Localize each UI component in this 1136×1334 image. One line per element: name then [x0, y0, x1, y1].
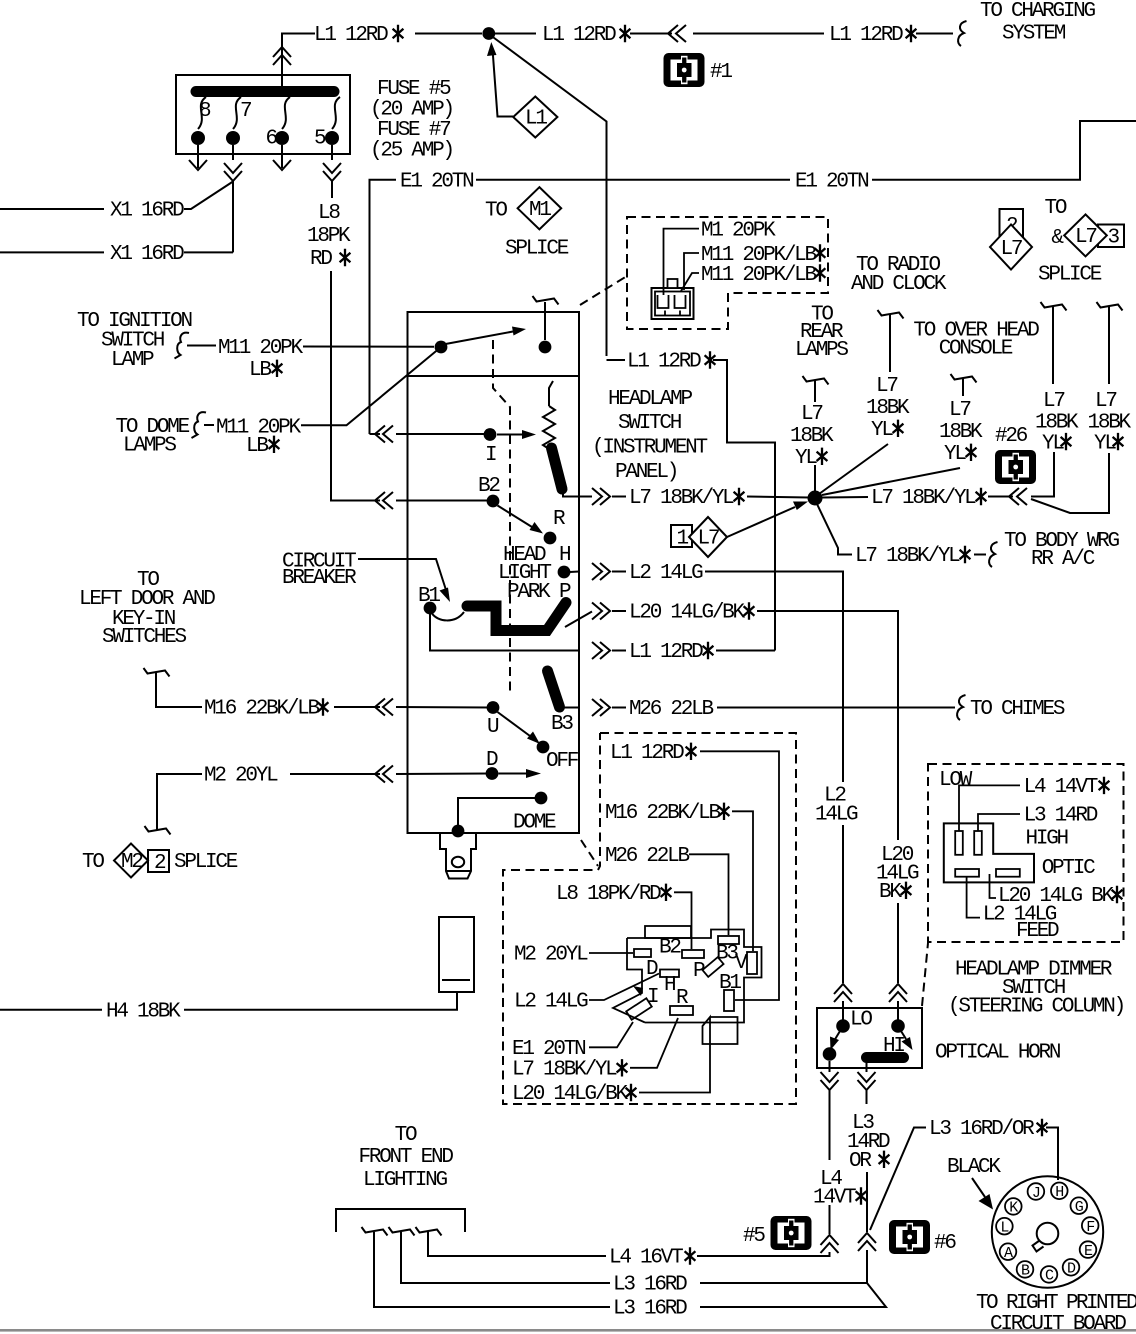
svg-text:E1 20TN: E1 20TN [795, 170, 868, 193]
pin P slot [693, 957, 724, 983]
pin H [1051, 1183, 1068, 1202]
arrow HI wiper [901, 1031, 913, 1050]
column 5 L7 [1031, 302, 1132, 513]
pin E [1080, 1241, 1097, 1260]
front end lighting connector bracket [336, 1209, 465, 1232]
svg-text:TO CHARGING: TO CHARGING [980, 0, 1096, 23]
svg-text:SPLICE: SPLICE [505, 237, 569, 260]
svg-text:BREAKER: BREAKER [282, 567, 357, 590]
dashed link optical horn to dimmer box [922, 943, 928, 1006]
svg-text:L7: L7 [1095, 390, 1116, 413]
svg-text:OPTIC: OPTIC [1042, 857, 1095, 880]
pin J [1028, 1183, 1045, 1202]
leader L8 to B2 pin [674, 892, 692, 949]
label TO LEFT DOOR AND KEY-IN SWITCHES [79, 569, 215, 649]
label L4 14VT* (column) [813, 1168, 866, 1210]
label B1 [418, 585, 440, 608]
wire B1 to L1 output row [430, 614, 579, 651]
pin F [1082, 1217, 1099, 1236]
label X1 16RD first [110, 200, 184, 223]
label M11 20PK LB* (dome) [216, 417, 301, 459]
column 3 L7 overhead console [822, 374, 983, 495]
label D [486, 749, 498, 772]
svg-text:L7: L7 [1075, 226, 1096, 249]
label E1 20TN (left) [400, 170, 473, 193]
svg-text:(STEERING COLUMN): (STEERING COLUMN) [948, 996, 1124, 1019]
inline connector on B2 row [375, 492, 393, 509]
svg-text:TO: TO [395, 1124, 417, 1147]
svg-text:LOW: LOW [939, 769, 973, 792]
svg-text:M26 22LB: M26 22LB [629, 698, 713, 721]
brace (dome leader) [192, 412, 207, 438]
fuse bus bar [196, 86, 334, 97]
dashed detail box M1/M11 connector [627, 217, 828, 329]
label SPLICE (M2) [174, 851, 238, 874]
svg-text:SWITCHES: SWITCHES [102, 626, 186, 649]
svg-text:OPTICAL HORN: OPTICAL HORN [935, 1042, 1060, 1065]
svg-text:YL: YL [795, 447, 817, 470]
node LO out [823, 1047, 837, 1061]
label TO (M2 splice) [82, 851, 104, 874]
svg-text:BLACK: BLACK [947, 1156, 1001, 1179]
fuse element pin 7 [233, 97, 241, 129]
svg-text:J: J [1032, 1185, 1040, 1202]
wire M2 row left [145, 766, 490, 835]
fuse block box [176, 75, 350, 154]
label DOME [513, 812, 556, 835]
node fuse pin 7 [226, 131, 240, 145]
wire L1 12RD feed from fuse bus to top corner [282, 34, 482, 87]
sail hook 1 [362, 1227, 388, 1236]
label B2 [478, 475, 500, 498]
leader L7 to R pin [630, 1018, 678, 1068]
svg-text:M16 22BK/LB: M16 22BK/LB [204, 698, 320, 721]
label #5 [743, 1225, 765, 1248]
svg-text:L7: L7 [801, 403, 822, 426]
node H [558, 566, 571, 579]
wire X1 16RD first [0, 182, 233, 210]
pin L [996, 1218, 1013, 1237]
splice symbol diamond L1 [513, 97, 557, 138]
pin A [1000, 1243, 1017, 1262]
svg-text:18BK: 18BK [866, 397, 910, 420]
arrow from splice diamond L1 into junction [487, 42, 513, 117]
label #26 [995, 425, 1028, 448]
arrow wiper (top section) [446, 327, 527, 345]
label L3 16RD (row3) [613, 1298, 687, 1321]
arrow BLACK to connector [972, 1178, 993, 1210]
svg-text:M2 20YL: M2 20YL [204, 765, 278, 788]
inline connector #26 wire [1009, 488, 1027, 505]
svg-text:M1 20PK: M1 20PK [701, 219, 776, 242]
svg-text:YL: YL [871, 419, 893, 442]
label H4 18BK [106, 1001, 181, 1024]
label M11 20PK/LB* (first) [701, 244, 825, 267]
svg-text:18BK: 18BK [939, 421, 983, 444]
sail hook 3 [416, 1227, 442, 1236]
arrow B2 to R [498, 506, 544, 534]
label HI [883, 1035, 904, 1058]
node L7 bus junction [808, 491, 823, 506]
label X1 16RD second [110, 243, 184, 266]
dimmer pin slot 2 [974, 831, 982, 855]
svg-text:L20 14LG/BK: L20 14LG/BK [629, 602, 746, 625]
label L7 18BK/YL* (detail) [512, 1059, 627, 1082]
svg-text:DOME: DOME [513, 812, 556, 835]
svg-text:L7: L7 [949, 399, 970, 422]
svg-text:(INSTRUMENT: (INSTRUMENT [592, 437, 708, 460]
2-pin connector symbol [652, 279, 694, 319]
dashed link switch corner to detail box [581, 840, 598, 866]
label OFF [546, 750, 579, 773]
label M26 22LB (detail) [605, 845, 689, 868]
round connector circle [992, 1176, 1103, 1287]
svg-text:YL: YL [1094, 432, 1116, 455]
splice symbol diamond L7 (2) [990, 225, 1032, 270]
svg-text:X1 16RD: X1 16RD [110, 200, 184, 223]
svg-text:YL: YL [944, 443, 966, 466]
node fuse pin 5 [325, 131, 339, 145]
svg-text:L7: L7 [698, 528, 719, 551]
svg-text:HIGH: HIGH [1026, 828, 1068, 851]
output L20 14LG/BK* [592, 602, 898, 840]
label L20 14LG/BK* (detail) [512, 1083, 636, 1106]
wire R contact to L7 output [563, 492, 579, 497]
label L20 14LG BK* (dimmer) [998, 885, 1122, 908]
label P [559, 581, 571, 604]
label TO DOME LAMPS [116, 416, 190, 457]
svg-text:CONSOLE: CONSOLE [939, 338, 1013, 361]
switch internal divider [408, 375, 580, 377]
sail hook 2 [389, 1227, 415, 1236]
svg-text:B2: B2 [659, 937, 681, 960]
svg-text:I: I [647, 986, 658, 1009]
pin D [1063, 1259, 1080, 1278]
node fuse pin 8 [191, 131, 205, 145]
pin-detail top bump [645, 926, 691, 938]
leader M26 to B3 pin [689, 854, 729, 935]
svg-text:RD: RD [310, 248, 332, 271]
label TO RIGHT PRINTED CIRCUIT BOARD [976, 1292, 1136, 1334]
leader L4 dimmer [959, 785, 1020, 831]
fuse element pin 8 [198, 97, 206, 129]
label HIGH [1026, 828, 1068, 851]
connector icon #26 [995, 450, 1036, 484]
thick park contact [467, 603, 566, 631]
battery feed sail above switch [533, 296, 559, 340]
svg-text:L7 18BK/YL: L7 18BK/YL [855, 545, 960, 568]
splice ref square 3 [1098, 225, 1124, 248]
pin R slot [670, 987, 693, 1015]
svg-text:2: 2 [154, 852, 166, 875]
wire H to L2 output [570, 571, 579, 574]
svg-text:14LG: 14LG [815, 804, 858, 827]
pin B [1017, 1261, 1034, 1280]
node R [544, 532, 557, 545]
node LO [836, 1019, 850, 1033]
svg-text:H: H [1055, 1184, 1063, 1201]
label LOW [939, 769, 973, 792]
wire HI output below box [700, 1058, 886, 1308]
arrow I to rheostat [497, 430, 536, 439]
svg-text:L4 14VT: L4 14VT [1024, 776, 1098, 799]
pin-detail bottom plug [703, 1017, 738, 1044]
pin G [1071, 1197, 1088, 1216]
pin labels 8 7 6 5 [199, 100, 326, 151]
label I [485, 444, 496, 467]
leader M11 second [681, 273, 699, 291]
svg-text:(25 AMP): (25 AMP) [370, 140, 453, 163]
splice ref square 1 [671, 525, 692, 551]
wire LO output below box [697, 1061, 839, 1256]
inline connector chevrons on charging wire [668, 25, 686, 42]
label L1 12RD* (top left) [314, 24, 403, 47]
label B3 [551, 713, 573, 736]
svg-text:L3 14RD: L3 14RD [1024, 805, 1098, 828]
leader M1 pin [664, 229, 700, 295]
thick contact R [552, 448, 563, 489]
label L8 18PK/RD* (detail) [556, 883, 671, 906]
svg-text:SYSTEM: SYSTEM [1002, 23, 1066, 46]
label L4 14VT* (dimmer) [1024, 776, 1110, 799]
svg-text:M2 20YL: M2 20YL [514, 944, 588, 967]
svg-text:TO RIGHT PRINTED: TO RIGHT PRINTED [976, 1292, 1136, 1315]
svg-text:B2: B2 [478, 475, 500, 498]
svg-text:LAMPS: LAMPS [795, 339, 848, 362]
label TO IGNITION SWITCH LAMP [77, 310, 192, 372]
leader L20 dimmer [990, 874, 997, 898]
optical horn box [817, 1008, 922, 1068]
node dome bottom [452, 825, 465, 838]
dimmer pin slot 3 [955, 869, 979, 877]
dimmer switch outline [944, 823, 1034, 882]
component (dome feed) rectangle [439, 917, 474, 992]
wire L20 column to optical horn [889, 903, 907, 1021]
label M16 22BK/LB* (detail) [605, 802, 729, 825]
node B2 [487, 495, 500, 508]
wire M11 20PK to wiper node [187, 346, 434, 347]
svg-text:RR A/C: RR A/C [1031, 548, 1095, 571]
svg-text:3: 3 [1108, 227, 1120, 250]
svg-text:PANEL): PANEL) [615, 461, 677, 484]
wire L3 16RD row 3 [374, 1232, 610, 1307]
pin V slot [735, 952, 757, 975]
svg-text:#6: #6 [934, 1232, 956, 1255]
node L1 junction [482, 27, 495, 40]
svg-text:18BK: 18BK [1088, 412, 1132, 435]
label M2 20YL (detail) [514, 944, 588, 967]
label L1 12RD* (detail) [610, 742, 696, 765]
pin K [1005, 1198, 1022, 1217]
label TO OVER HEAD CONSOLE [913, 319, 1039, 360]
off-page squiggle to charging system [958, 21, 966, 46]
wire M16 row left [144, 668, 491, 716]
label L2 14LG (column) [815, 785, 858, 827]
svg-text:L1 12RD: L1 12RD [829, 24, 903, 47]
svg-text:B3: B3 [551, 713, 573, 736]
node U [487, 701, 500, 714]
wire DOME to bottom plug [458, 798, 535, 831]
svg-text:L3 16RD: L3 16RD [613, 1274, 687, 1297]
node DOME contact [535, 792, 548, 805]
label L3 14RD OR* (column) [847, 1112, 890, 1173]
label L1 12RD* (switch feed) [627, 351, 715, 374]
wire pin6 stub with open arrow [273, 145, 291, 170]
column 4 L7 [1035, 302, 1079, 455]
leader L2 dimmer [967, 877, 980, 918]
wire pin5 with inline connector [323, 145, 341, 198]
dashed link from switch corner to detail box [580, 276, 627, 305]
label L3 16RD (row2) [613, 1274, 687, 1297]
svg-text:18PK: 18PK [307, 225, 351, 248]
pin C [1041, 1266, 1058, 1285]
fuse element pin 5 [332, 97, 340, 129]
svg-text:LO: LO [850, 1009, 872, 1032]
svg-text:LAMP: LAMP [111, 349, 154, 372]
label R [553, 508, 566, 531]
svg-text:L1 12RD: L1 12RD [542, 24, 616, 47]
arrow U to OFF [498, 712, 541, 744]
inline connector chevrons on L1 fuse riser [273, 47, 291, 65]
svg-text:M16 22BK/LB: M16 22BK/LB [605, 802, 721, 825]
svg-text:LAMPS: LAMPS [123, 435, 176, 458]
fuse element pin 6 [282, 97, 290, 129]
svg-text:L1 12RD: L1 12RD [610, 742, 684, 765]
wire M26 output from B3 [560, 695, 1065, 721]
svg-text:L20 14LG/BK: L20 14LG/BK [512, 1083, 629, 1106]
pin B3 slot [716, 936, 739, 966]
node HI top [891, 1019, 905, 1033]
label TO (M1 splice) [485, 199, 507, 222]
svg-text:OR: OR [849, 1150, 872, 1173]
node D [486, 767, 499, 780]
wire H4 18BK [0, 992, 457, 1010]
splice symbol diamond M2 [114, 844, 148, 878]
arrow LO wiper [830, 1031, 840, 1050]
svg-text:5: 5 [314, 128, 326, 151]
pin H slot [646, 958, 679, 997]
splice symbol diamond L7 (1) [689, 517, 727, 557]
label TO REAR LAMPS [795, 304, 848, 362]
svg-text:OFF: OFF [546, 750, 579, 773]
column 1 L7 to rear lamps [790, 376, 834, 491]
wire L3 16RD/OR* branch [870, 1128, 1058, 1231]
svg-text:AND CLOCK: AND CLOCK [851, 273, 947, 296]
node OFF [537, 741, 550, 754]
wire pin7 with inline connector [224, 145, 242, 252]
svg-text:X1 16RD: X1 16RD [110, 243, 184, 266]
svg-text:L2 14LG: L2 14LG [629, 562, 703, 585]
label SPLICE (M1) [505, 237, 569, 260]
switch connector pin-detail outline [613, 930, 762, 1023]
leader E1 to I pin [589, 1022, 633, 1047]
dimmer pin slot 1 [955, 831, 963, 855]
svg-text:P: P [693, 960, 705, 983]
wire L8 down to switch B2 row [331, 271, 490, 501]
dimmer pin slot 4 [996, 869, 1020, 877]
node switch feed (top right contact) [539, 341, 552, 354]
wire L4 16VT* row [428, 1232, 606, 1256]
wire junction to inline connector right [822, 452, 1054, 498]
svg-text:H: H [664, 974, 675, 997]
wire L3 16RD row 2 [401, 1232, 610, 1283]
label L20 14LG BK* (column) [876, 844, 919, 904]
rheostat resistor [543, 406, 555, 453]
brace (ignition leader) [175, 333, 190, 359]
svg-text:YL: YL [1042, 432, 1064, 455]
wire M11 20PK dome diagonal to wiper node [204, 350, 438, 426]
label HEADLAMP SWITCH (INSTRUMENT PANEL) [592, 388, 708, 484]
svg-text:L3 16RD: L3 16RD [613, 1298, 687, 1321]
wire E1 20TN main run [370, 121, 1136, 434]
label L2 14LG FEED (dimmer) [983, 904, 1059, 944]
svg-text:7: 7 [240, 100, 251, 123]
label M11 20PK/LB* (second) [701, 264, 825, 287]
svg-text:L8: L8 [318, 202, 340, 225]
svg-text:M2: M2 [121, 851, 143, 874]
label M11 20PK LB* (ignition) [218, 337, 303, 382]
thick HI contact bar [867, 1052, 904, 1063]
svg-text:L8 18PK/RD: L8 18PK/RD [556, 883, 661, 906]
node switch wiper (top left contact) [435, 341, 448, 354]
svg-text:18BK: 18BK [1035, 412, 1079, 435]
pin-detail keying notch [633, 986, 643, 996]
svg-text:HEADLAMP: HEADLAMP [608, 388, 692, 411]
svg-text:I: I [485, 444, 496, 467]
label L3 16RD/OR* [929, 1118, 1047, 1141]
leader L1 to B1 pin [700, 751, 779, 1000]
svg-text:M11 20PK/LB: M11 20PK/LB [701, 264, 817, 287]
svg-text:M11 20PK: M11 20PK [218, 337, 303, 360]
column 2 L7 radio clock [819, 310, 910, 494]
wire L1 12RD to charging system [495, 33, 953, 35]
svg-text:L1: L1 [525, 108, 547, 131]
svg-text:1: 1 [677, 528, 689, 551]
circuit breaker arc [432, 612, 464, 620]
svg-text:L7 18BK/YL: L7 18BK/YL [629, 487, 734, 510]
wire L7 branch to body wrg [817, 504, 998, 567]
svg-text:SPLICE: SPLICE [1038, 264, 1102, 287]
svg-text:E1 20TN: E1 20TN [400, 170, 473, 193]
leader M11 first [684, 253, 699, 290]
label L2 14LG (detail) [514, 991, 588, 1014]
label TO FRONT END LIGHTING [359, 1124, 454, 1192]
svg-text:SPLICE: SPLICE [174, 851, 238, 874]
node I [484, 428, 497, 441]
svg-text:BK: BK [879, 881, 902, 904]
leader M16 to V pin [732, 811, 753, 951]
svg-text:L7: L7 [876, 375, 897, 398]
wire L1 12RD diagonal to headlamp switch [494, 38, 776, 651]
label L7 18BK/YL* (bus) [871, 487, 986, 510]
svg-text:18BK: 18BK [790, 425, 834, 448]
label TO & SPLICE [1038, 197, 1102, 287]
switch bottom plug [440, 833, 476, 879]
wire X1 16RD second [0, 251, 233, 253]
output L7 18BK/YL* [579, 487, 809, 510]
label BLACK [947, 1156, 1001, 1179]
label #1 [710, 61, 732, 84]
svg-text:L7 18BK/YL: L7 18BK/YL [512, 1059, 617, 1082]
svg-text:L7 18BK/YL: L7 18BK/YL [871, 487, 976, 510]
leader L3 dimmer [978, 814, 1020, 831]
svg-text:#1: #1 [710, 61, 732, 84]
svg-text:L1 12RD: L1 12RD [314, 24, 388, 47]
wire park contact to L20 output [565, 612, 592, 628]
svg-text:L4 16VT: L4 16VT [609, 1247, 683, 1270]
label FUSE #5 (20 AMP) FUSE #7 (25 AMP) [370, 78, 453, 163]
svg-text:H: H [559, 544, 570, 567]
